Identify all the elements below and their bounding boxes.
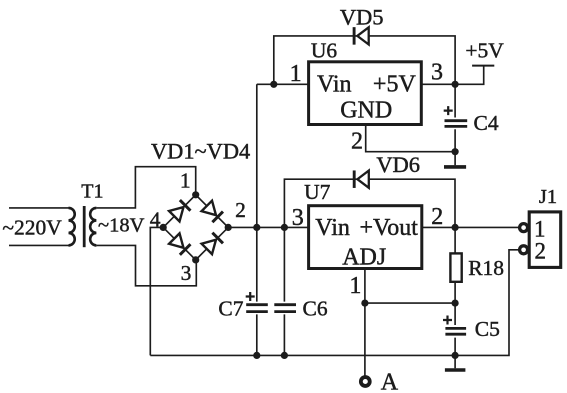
diode VD4 (bridge, node3 to node2) (201, 233, 222, 254)
wire node 4 to bottom rail (150, 227, 163, 355)
svg-text:~18V: ~18V (98, 214, 145, 236)
svg-text:1: 1 (290, 61, 302, 87)
svg-text:+Vout: +Vout (359, 215, 418, 241)
svg-text:3: 3 (292, 205, 304, 231)
svg-text:GND: GND (340, 98, 392, 124)
wire primary top (9, 207, 69, 209)
diode VD2 (bridge, node1 to node2) (201, 201, 222, 222)
wire C6 column (VD6 left / C6) (283, 227, 285, 355)
op-amp U6 regulator box (309, 62, 422, 125)
svg-text:C7: C7 (218, 296, 243, 320)
transformer T1 primary winding (69, 208, 75, 246)
svg-text:A: A (381, 370, 399, 393)
junction dot C4/pin2 (452, 148, 459, 155)
svg-text:2: 2 (431, 204, 443, 230)
wire C5 column (454, 303, 456, 355)
svg-text:U6: U6 (311, 39, 338, 63)
svg-text:1: 1 (349, 273, 361, 299)
svg-text:1: 1 (180, 169, 191, 193)
connector J1 box (529, 212, 561, 268)
capacitor C7 plates (246, 305, 268, 312)
node A terminal (361, 377, 370, 386)
capacitor C6 plates (274, 305, 296, 312)
wire U7 ADJ (pin 1) down to node A (364, 269, 366, 377)
svg-text:3: 3 (431, 60, 443, 86)
svg-text:U7: U7 (304, 180, 331, 204)
svg-text:J1: J1 (539, 186, 557, 208)
wire U6 pin 2 (GND) (366, 125, 455, 152)
svg-text:VD5: VD5 (340, 4, 384, 29)
wire secondary top to bridge node 1 (96, 167, 195, 208)
wire bridge diamond (163, 195, 228, 260)
wire R18 bottom lead (454, 282, 456, 303)
diode VD3 (bridge, node4 to node3) (169, 233, 190, 254)
wire secondary bottom to bridge node 3 (96, 245, 196, 285)
C7 polarity + (246, 292, 255, 301)
diode VD1 (bridge, node4 to node1) (169, 200, 190, 221)
wire C4 column (454, 84, 456, 165)
capacitor C5 plates (445, 328, 466, 334)
svg-text:2: 2 (351, 129, 363, 155)
junction dot rail-C7 (253, 224, 260, 231)
junction dot VD5 tap (270, 81, 277, 88)
junction dot C6 bottom (281, 352, 288, 359)
ground (bottom right) (445, 368, 466, 372)
transformer T1 secondary winding (90, 208, 96, 246)
transformer T1 core (83, 206, 86, 247)
wire ADJ to R18 bottom (365, 302, 455, 304)
junction dot R18/C5 (452, 300, 459, 307)
svg-text:~220V: ~220V (2, 216, 62, 240)
svg-text:VD1~VD4: VD1~VD4 (151, 139, 250, 164)
svg-text:R18: R18 (468, 256, 504, 280)
svg-text:C6: C6 (303, 296, 328, 320)
svg-text:+5V: +5V (465, 39, 504, 63)
svg-text:3: 3 (181, 261, 192, 285)
svg-text:VD6: VD6 (376, 152, 420, 177)
C4 polarity + (444, 106, 453, 115)
wire node 2 to U7 pin 3 (228, 226, 308, 228)
capacitor C4 plates (445, 121, 468, 127)
junction dot bridge node 2 (225, 224, 232, 231)
ground (below C4) (444, 165, 466, 169)
svg-text:1: 1 (534, 216, 546, 241)
wire R18 top lead (454, 227, 456, 253)
junction dot C7 bottom (253, 352, 260, 359)
wire VD6 loop (284, 179, 455, 227)
svg-text:C4: C4 (474, 111, 499, 135)
svg-text:Vin: Vin (317, 72, 352, 98)
svg-text:+5V: +5V (373, 72, 417, 98)
diode VD5 (354, 27, 369, 45)
junction dot output rail (452, 224, 459, 231)
svg-text:2: 2 (235, 198, 246, 222)
wire ground stem (454, 355, 456, 368)
op-amp U7 regulator box (309, 206, 422, 269)
+5V terminal bar (472, 65, 494, 67)
wire bottom ground rail (150, 354, 455, 356)
wire U7 pin 2 to J1 pin 1 (422, 226, 519, 228)
resistor R18 (450, 253, 461, 281)
wire VD5 loop (274, 36, 455, 84)
junction dot bridge node 4 (160, 224, 167, 231)
svg-text:C5: C5 (475, 317, 500, 341)
wire J1 pin 2 return (455, 250, 519, 356)
junction dot bottom rail right (452, 352, 459, 359)
wire U6 pin 3 to +5V terminal (421, 66, 483, 84)
connector J1 pin 1 circle (520, 224, 528, 232)
wire C7 column (U6 Vin feed) (256, 84, 258, 355)
svg-text:ADJ: ADJ (342, 245, 386, 271)
svg-text:T1: T1 (81, 180, 103, 202)
wire primary bottom (9, 244, 69, 246)
junction dot ADJ tap (361, 300, 368, 307)
junction dot pin3/C4 (452, 81, 459, 88)
diode VD6 (354, 170, 369, 188)
connector J1 pin 2 circle (520, 246, 528, 254)
junction dot rail-C6 (281, 224, 288, 231)
junction dot bridge node 1 (192, 191, 199, 198)
wire U6 pin 1 (257, 83, 309, 85)
junction dot bridge node 3 (192, 256, 199, 263)
svg-text:Vin: Vin (315, 215, 350, 241)
C5 polarity + (443, 316, 452, 325)
svg-text:2: 2 (534, 239, 546, 264)
